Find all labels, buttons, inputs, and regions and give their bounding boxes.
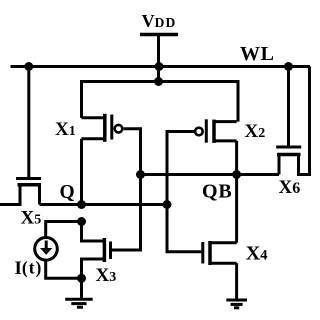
junction X1 drain / Q line [77,200,86,209]
junction X2 drain / QB line [232,170,241,179]
power symbol VDD bar [140,33,178,37]
wire right rail WL to X6 [299,67,310,175]
wire X2 drain to QB line [235,141,238,175]
svg-text:WL: WL [240,43,275,65]
wire node QB [141,173,280,176]
junction X3 source / I(t) bottom [77,274,86,283]
wire word line WL [11,65,311,68]
svg-text:X6: X6 [279,177,301,198]
junction VDD stem / WL [155,62,164,71]
svg-text:VDD: VDD [142,11,177,31]
svg-text:QB: QB [202,181,233,203]
nmos X6 [276,67,309,175]
current source I(t) [35,222,82,279]
junction VDD stem / VDD rail [154,77,163,86]
svg-text:Q: Q [60,182,75,203]
pmos X1 [82,114,123,142]
svg-text:X5: X5 [21,207,42,228]
wire X1 drain to node Q [80,139,83,205]
pmos X2 [195,119,237,143]
nmos X5 [0,67,41,205]
svg-text:X3: X3 [96,265,117,286]
nmos X4 [203,175,237,299]
svg-text:I(t): I(t) [15,258,43,280]
wire node Q [40,203,168,206]
ground 2 [226,300,247,308]
junction current source top / X1 drain [77,217,86,226]
wire X1 gate / node A to X3 gate [112,129,141,250]
svg-text:X1: X1 [55,119,76,140]
junction node B / Q line [163,200,172,209]
nmos X3 [82,222,111,279]
junction X6 gate / WL [284,62,293,71]
svg-text:X4: X4 [246,243,268,265]
junction X5 gate / WL [24,62,33,71]
svg-text:X2: X2 [245,121,266,142]
junction node A / QB line [136,170,145,179]
wire VDD rail [82,82,239,122]
ground 1 [65,278,93,307]
wire VDD stem [157,35,160,83]
wire X2 gate / node B to X4 gate [167,132,201,252]
